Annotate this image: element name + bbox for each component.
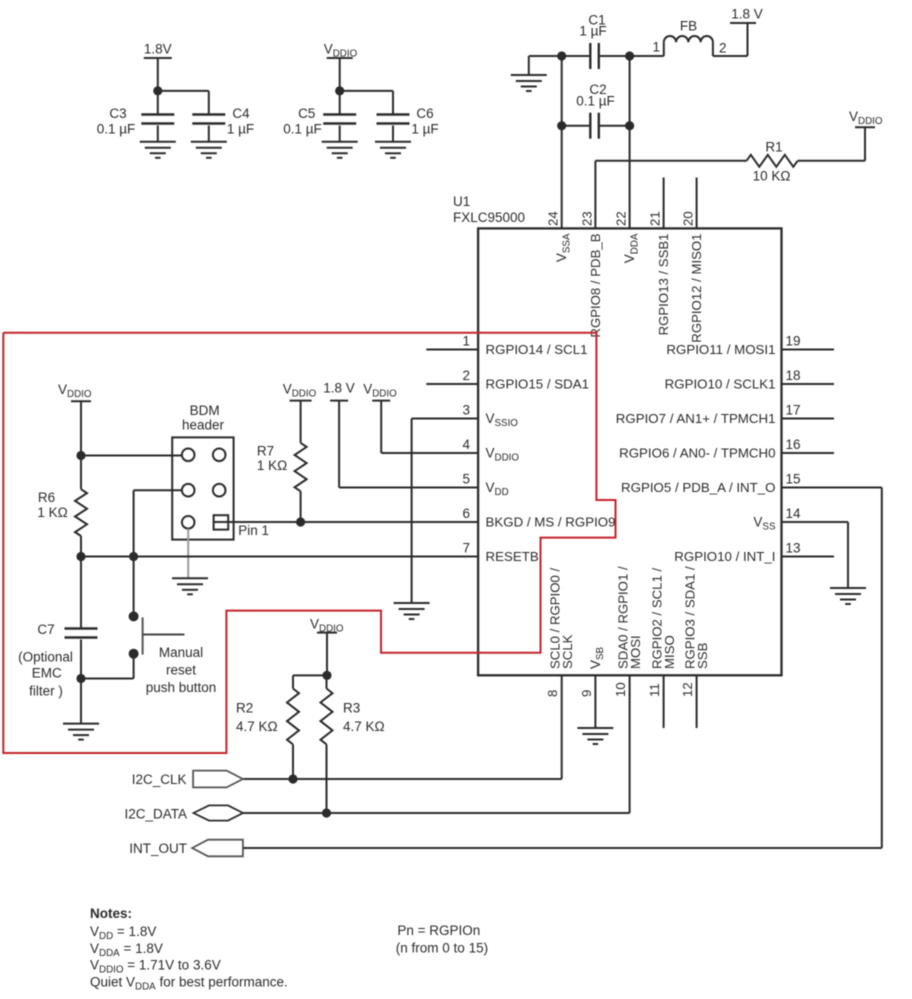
svg-text:3: 3 bbox=[462, 403, 470, 418]
svg-text:EMC: EMC bbox=[32, 666, 62, 681]
svg-text:(n from 0 to 15): (n from 0 to 15) bbox=[396, 941, 488, 956]
svg-text:19: 19 bbox=[786, 334, 801, 349]
svg-text:15: 15 bbox=[786, 472, 801, 487]
svg-text:(Optional: (Optional bbox=[18, 650, 73, 665]
svg-text:filter ): filter ) bbox=[29, 684, 63, 699]
svg-text:RGPIO7 / AN1+ / TPMCH1: RGPIO7 / AN1+ / TPMCH1 bbox=[616, 411, 776, 426]
svg-text:BKGD / MS / RGPIO9: BKGD / MS / RGPIO9 bbox=[486, 515, 616, 530]
svg-text:1.8 V: 1.8 V bbox=[323, 381, 355, 396]
svg-text:SSB: SSB bbox=[695, 642, 710, 669]
svg-text:5: 5 bbox=[462, 472, 470, 487]
svg-text:C5: C5 bbox=[298, 106, 315, 121]
svg-text:7: 7 bbox=[462, 541, 470, 556]
svg-text:13: 13 bbox=[786, 541, 801, 556]
svg-text:4.7 KΩ: 4.7 KΩ bbox=[236, 719, 278, 734]
svg-text:reset: reset bbox=[166, 663, 196, 678]
svg-text:R2: R2 bbox=[236, 701, 253, 716]
svg-text:1: 1 bbox=[462, 334, 470, 349]
svg-text:11: 11 bbox=[647, 683, 662, 697]
svg-text:1: 1 bbox=[652, 40, 660, 55]
svg-text:RGPIO6 / AN0- / TPMCH0: RGPIO6 / AN0- / TPMCH0 bbox=[619, 446, 775, 461]
svg-text:10 KΩ: 10 KΩ bbox=[753, 169, 791, 184]
svg-text:U1: U1 bbox=[453, 194, 470, 209]
svg-text:20: 20 bbox=[681, 211, 696, 226]
svg-text:1 KΩ: 1 KΩ bbox=[257, 458, 287, 473]
svg-text:header: header bbox=[182, 418, 225, 433]
svg-text:INT_OUT: INT_OUT bbox=[129, 841, 187, 856]
svg-text:I2C_DATA: I2C_DATA bbox=[124, 807, 187, 822]
svg-text:Manual: Manual bbox=[159, 645, 203, 660]
svg-text:16: 16 bbox=[786, 437, 801, 452]
svg-text:RGPIO14 / SCL1: RGPIO14 / SCL1 bbox=[486, 342, 588, 357]
svg-text:RGPIO13 / SSB1: RGPIO13 / SSB1 bbox=[656, 234, 671, 336]
svg-text:1.8 V: 1.8 V bbox=[731, 6, 763, 21]
svg-text:RGPIO15 / SDA1: RGPIO15 / SDA1 bbox=[486, 377, 589, 392]
svg-text:C4: C4 bbox=[232, 106, 250, 121]
svg-text:1 µF: 1 µF bbox=[579, 24, 606, 39]
svg-text:Notes:: Notes: bbox=[90, 906, 132, 921]
svg-text:2: 2 bbox=[719, 41, 727, 56]
svg-text:R3: R3 bbox=[343, 701, 360, 716]
svg-text:push button: push button bbox=[146, 680, 217, 695]
svg-text:C6: C6 bbox=[416, 106, 433, 121]
svg-text:BDM: BDM bbox=[190, 403, 220, 418]
svg-text:R1: R1 bbox=[765, 140, 782, 155]
svg-text:9: 9 bbox=[579, 690, 594, 697]
svg-text:RGPIO10 / INT_I: RGPIO10 / INT_I bbox=[674, 549, 775, 564]
svg-text:SCLK: SCLK bbox=[560, 634, 575, 669]
svg-text:MISO: MISO bbox=[662, 635, 677, 669]
svg-text:24: 24 bbox=[546, 211, 561, 226]
svg-text:RGPIO5 / PDB_A / INT_O: RGPIO5 / PDB_A / INT_O bbox=[621, 480, 775, 495]
svg-text:8: 8 bbox=[545, 690, 560, 697]
svg-text:FB: FB bbox=[680, 19, 697, 34]
svg-text:2: 2 bbox=[462, 368, 470, 383]
svg-text:1 KΩ: 1 KΩ bbox=[37, 505, 67, 520]
svg-text:4.7 KΩ: 4.7 KΩ bbox=[343, 719, 385, 734]
svg-text:RGPIO10 / SCLK1: RGPIO10 / SCLK1 bbox=[665, 377, 776, 392]
svg-text:0.1 µF: 0.1 µF bbox=[97, 122, 136, 137]
svg-text:C3: C3 bbox=[109, 106, 126, 121]
svg-text:17: 17 bbox=[786, 403, 801, 418]
svg-text:12: 12 bbox=[680, 682, 695, 697]
svg-text:4: 4 bbox=[462, 437, 470, 452]
svg-text:R7: R7 bbox=[257, 444, 274, 459]
svg-text:0.1 µF: 0.1 µF bbox=[576, 93, 615, 108]
svg-text:I2C_CLK: I2C_CLK bbox=[132, 772, 187, 787]
svg-text:14: 14 bbox=[786, 506, 802, 521]
svg-text:6: 6 bbox=[462, 506, 470, 521]
svg-text:22: 22 bbox=[614, 211, 629, 226]
svg-text:21: 21 bbox=[648, 211, 663, 226]
svg-text:RGPIO12 / MISO1: RGPIO12 / MISO1 bbox=[689, 234, 704, 343]
svg-text:RESETB: RESETB bbox=[486, 549, 539, 564]
svg-text:Pin 1: Pin 1 bbox=[238, 523, 269, 538]
svg-text:1.8V: 1.8V bbox=[144, 42, 172, 57]
svg-text:1 µF: 1 µF bbox=[411, 122, 438, 137]
svg-text:10: 10 bbox=[613, 682, 628, 697]
svg-text:18: 18 bbox=[786, 368, 801, 383]
svg-text:RGPIO8 / PDB_B: RGPIO8 / PDB_B bbox=[588, 233, 603, 337]
svg-text:1 µF: 1 µF bbox=[227, 122, 254, 137]
svg-text:Pn = RGPIOn: Pn = RGPIOn bbox=[397, 923, 480, 938]
svg-text:RGPIO11 / MOSI1: RGPIO11 / MOSI1 bbox=[666, 342, 775, 357]
svg-text:23: 23 bbox=[579, 211, 594, 226]
svg-text:FXLC95000: FXLC95000 bbox=[453, 210, 525, 225]
svg-text:MOSI: MOSI bbox=[628, 635, 643, 669]
svg-text:C7: C7 bbox=[37, 622, 54, 637]
svg-text:0.1 µF: 0.1 µF bbox=[283, 122, 322, 137]
svg-text:R6: R6 bbox=[38, 490, 55, 505]
